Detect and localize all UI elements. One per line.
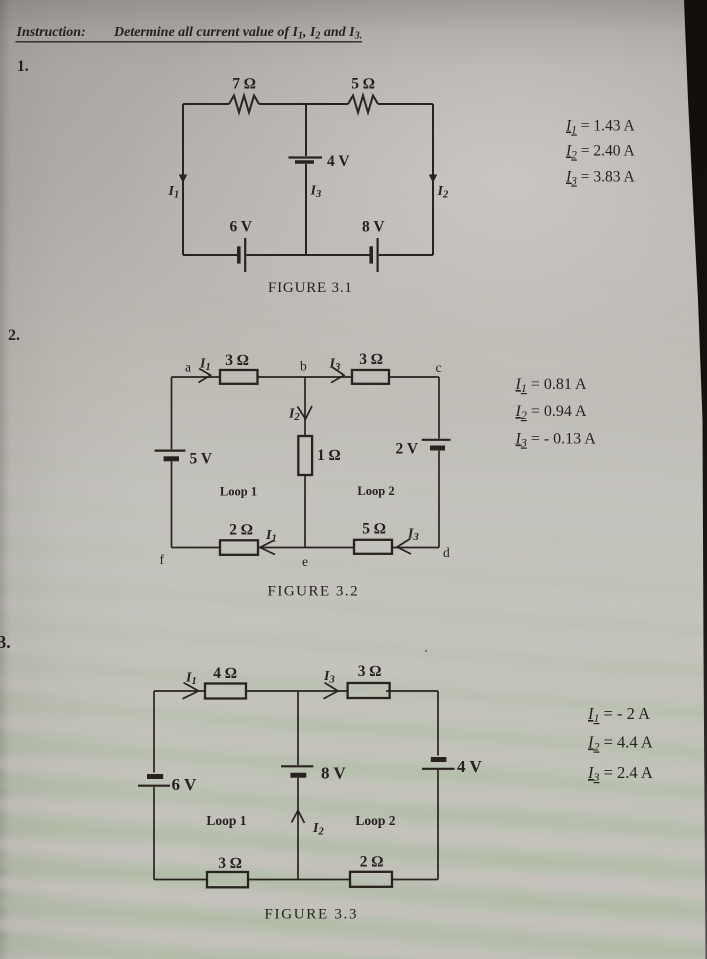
battery 5V short plate [164,456,179,461]
battery 4V long plate [422,768,455,770]
wire: fig3 left branch lower [153,787,155,880]
battery 8V short plate [290,773,306,778]
svg-text:3 Ω: 3 Ω [359,351,383,368]
resistor 1 ohm box (vertical) [298,436,312,475]
svg-text:a: a [185,360,191,375]
arrow: current I3 out of node b (open arrowhead) [331,367,344,383]
wire: fig2 bottom right segment d to resistor [392,547,439,549]
battery 6V short plate [237,246,241,263]
arrow: current I2 direction (down) [429,175,437,184]
svg-text:I3: I3 [329,357,341,374]
svg-text:1 Ω: 1 Ω [317,447,341,464]
resistor 3 ohm box (left top) [220,370,258,384]
svg-text:1.: 1. [17,58,29,75]
svg-text:I2: I2 [437,184,449,201]
arrow: current I1 into node b (open arrowhead) [199,369,211,383]
svg-text:FIGURE 3.2: FIGURE 3.2 [268,584,360,600]
svg-text:I1: I1 [168,184,180,201]
wire: fig1 left branch [182,104,184,255]
svg-text:5 Ω: 5 Ω [362,521,386,538]
svg-text:Determine all current value of: Determine all current value of I1, I2 an… [113,25,362,42]
battery 4V short plate [431,757,447,762]
wire: fig2 bottom left f to resistor [172,547,221,549]
battery 8V short plate [369,246,373,263]
battery 4V short plate [295,160,314,164]
svg-text:Loop 2: Loop 2 [357,484,394,498]
svg-text:I2 = 4.4 A: I2 = 4.4 A [587,733,653,754]
svg-text:I1 = - 2 A: I1 = - 2 A [587,704,650,725]
svg-text:b: b [300,359,307,374]
svg-text:e: e [302,554,308,569]
battery 6V long plate [138,785,170,787]
wire: fig1 top right segment [378,103,433,105]
arrow: current I1 toward f (open arrowhead) [260,540,275,555]
svg-text:3.: 3. [0,632,11,652]
svg-text:I3: I3 [407,527,419,544]
wire: fig1 middle branch upper [305,104,307,156]
svg-text:I2: I2 [312,821,324,838]
wire: fig3 left branch upper [153,691,155,773]
svg-text:6 V: 6 V [230,219,253,236]
svg-text:4 V: 4 V [327,153,350,170]
svg-text:I3 = - 0.13 A: I3 = - 0.13 A [515,431,597,450]
svg-text:8 V: 8 V [321,764,346,783]
wire: fig2 top right segment to c [389,376,439,378]
svg-text:I1: I1 [185,671,197,688]
wire: fig1 right branch [432,104,434,255]
svg-text:f: f [160,552,165,567]
svg-text:Loop 1: Loop 1 [220,485,257,499]
svg-text:I1: I1 [199,357,211,374]
arrow: current I1 (open arrowhead) [183,683,199,699]
wire: fig2 right branch lower [438,451,440,548]
svg-text:I3 = 2.4 A: I3 = 2.4 A [587,763,653,784]
svg-text:8 V: 8 V [362,219,385,236]
wire: fig3 middle branch lower [297,778,299,880]
wire: fig3 bottom right segment [392,879,438,881]
svg-text:I3 = 3.83 A: I3 = 3.83 A [565,169,636,188]
svg-text:6 V: 6 V [172,775,197,794]
wire: fig1 top middle segment [259,103,348,105]
wire: fig3 bottom middle segment [248,879,350,881]
resistor 3 ohm box (right top) [352,370,389,384]
battery 2V short plate [430,446,445,451]
svg-text:I1 = 0.81 A: I1 = 0.81 A [515,376,587,395]
resistor 4 ohm box (top left) [205,684,246,699]
wire: fig1 top left segment [183,103,229,105]
resistor 2 ohm box (bottom right) [350,872,392,887]
wire: fig3 top right segment [386,690,438,692]
battery 2V long plate [422,439,451,441]
wire: fig2 right branch upper [438,377,440,439]
svg-text:3 Ω: 3 Ω [358,663,382,680]
wire: fig1 bottom left segment [183,254,238,256]
arrow: current I2 up (open arrowhead) [292,811,305,824]
svg-text:Loop 1: Loop 1 [206,813,246,828]
wire: fig3 top left segment [154,690,205,692]
wire: fig1 middle branch lower [305,164,307,255]
svg-text:FIGURE 3.3: FIGURE 3.3 [265,907,359,923]
arrow: current I3 toward e (open arrowhead) [397,539,411,555]
wire: fig2 bottom middle segment [258,547,354,549]
svg-text:2 Ω: 2 Ω [360,854,384,871]
wire: fig3 middle branch upper [297,691,299,765]
svg-text:c: c [436,360,442,375]
arrow: current I2 down (open arrowhead) [298,406,313,419]
resistor 5 ohm box (bottom right) [354,540,392,554]
battery 8V long plate [377,238,379,272]
svg-text:Loop 2: Loop 2 [355,813,395,828]
wire: fig2 left branch upper [171,377,173,449]
svg-text:Instruction:: Instruction: [16,25,86,40]
battery 8V long plate [281,765,313,767]
svg-text:FIGURE 3.1: FIGURE 3.1 [268,280,353,296]
wire: fig3 right branch lower [437,770,439,880]
svg-text:5 V: 5 V [190,451,213,468]
svg-text:I1: I1 [265,528,277,545]
svg-text:I3: I3 [310,184,322,201]
wire: fig2 middle branch b down [304,377,306,436]
arrow: current I3 (open arrowhead) [324,683,339,699]
wire: fig1 bottom right segment [379,254,433,256]
resistor 2 ohm box (bottom left) [220,540,258,555]
svg-text:3 Ω: 3 Ω [225,352,249,369]
svg-text:I2 = 0.94 A: I2 = 0.94 A [515,403,587,422]
speck mark [425,650,427,652]
wire: fig3 top middle segment [246,690,348,692]
svg-text:I1 = 1.43 A: I1 = 1.43 A [565,118,636,137]
wire: fig2 left branch lower [171,462,173,548]
wire: fig2 middle branch to e [304,475,306,548]
resistor 3 ohm box (bottom left) [207,872,248,887]
wire: fig1 bottom middle segment [247,254,371,256]
svg-text:I3: I3 [323,669,335,686]
battery 6V long plate [244,238,246,272]
battery 4V long plate [289,156,323,158]
svg-text:2 V: 2 V [396,441,419,458]
wire: fig2 top middle segment [258,376,353,378]
resistor 7 ohm (zigzag) [229,96,259,113]
svg-text:I2 = 2.40 A: I2 = 2.40 A [565,143,636,162]
svg-text:7 Ω: 7 Ω [232,76,256,93]
wire: fig3 bottom left segment [154,879,207,881]
battery 6V short plate [147,774,163,779]
svg-text:3 Ω: 3 Ω [218,855,242,872]
svg-text:4 Ω: 4 Ω [213,665,237,682]
svg-text:5 Ω: 5 Ω [351,76,375,93]
battery 5V long plate [155,450,186,452]
arrow: current I1 direction (down) [179,175,187,184]
resistor 3 ohm box (top right) [348,683,390,698]
wire: fig3 right branch upper [437,691,439,756]
resistor 5 ohm (zigzag) [348,96,378,113]
wire: fig2 top left segment a to resistor [172,376,221,378]
svg-text:2.: 2. [8,327,20,344]
svg-text:d: d [443,545,450,560]
title: Instruction header underline [16,41,363,43]
svg-text:2 Ω: 2 Ω [229,522,253,539]
svg-text:4 V: 4 V [457,757,482,776]
